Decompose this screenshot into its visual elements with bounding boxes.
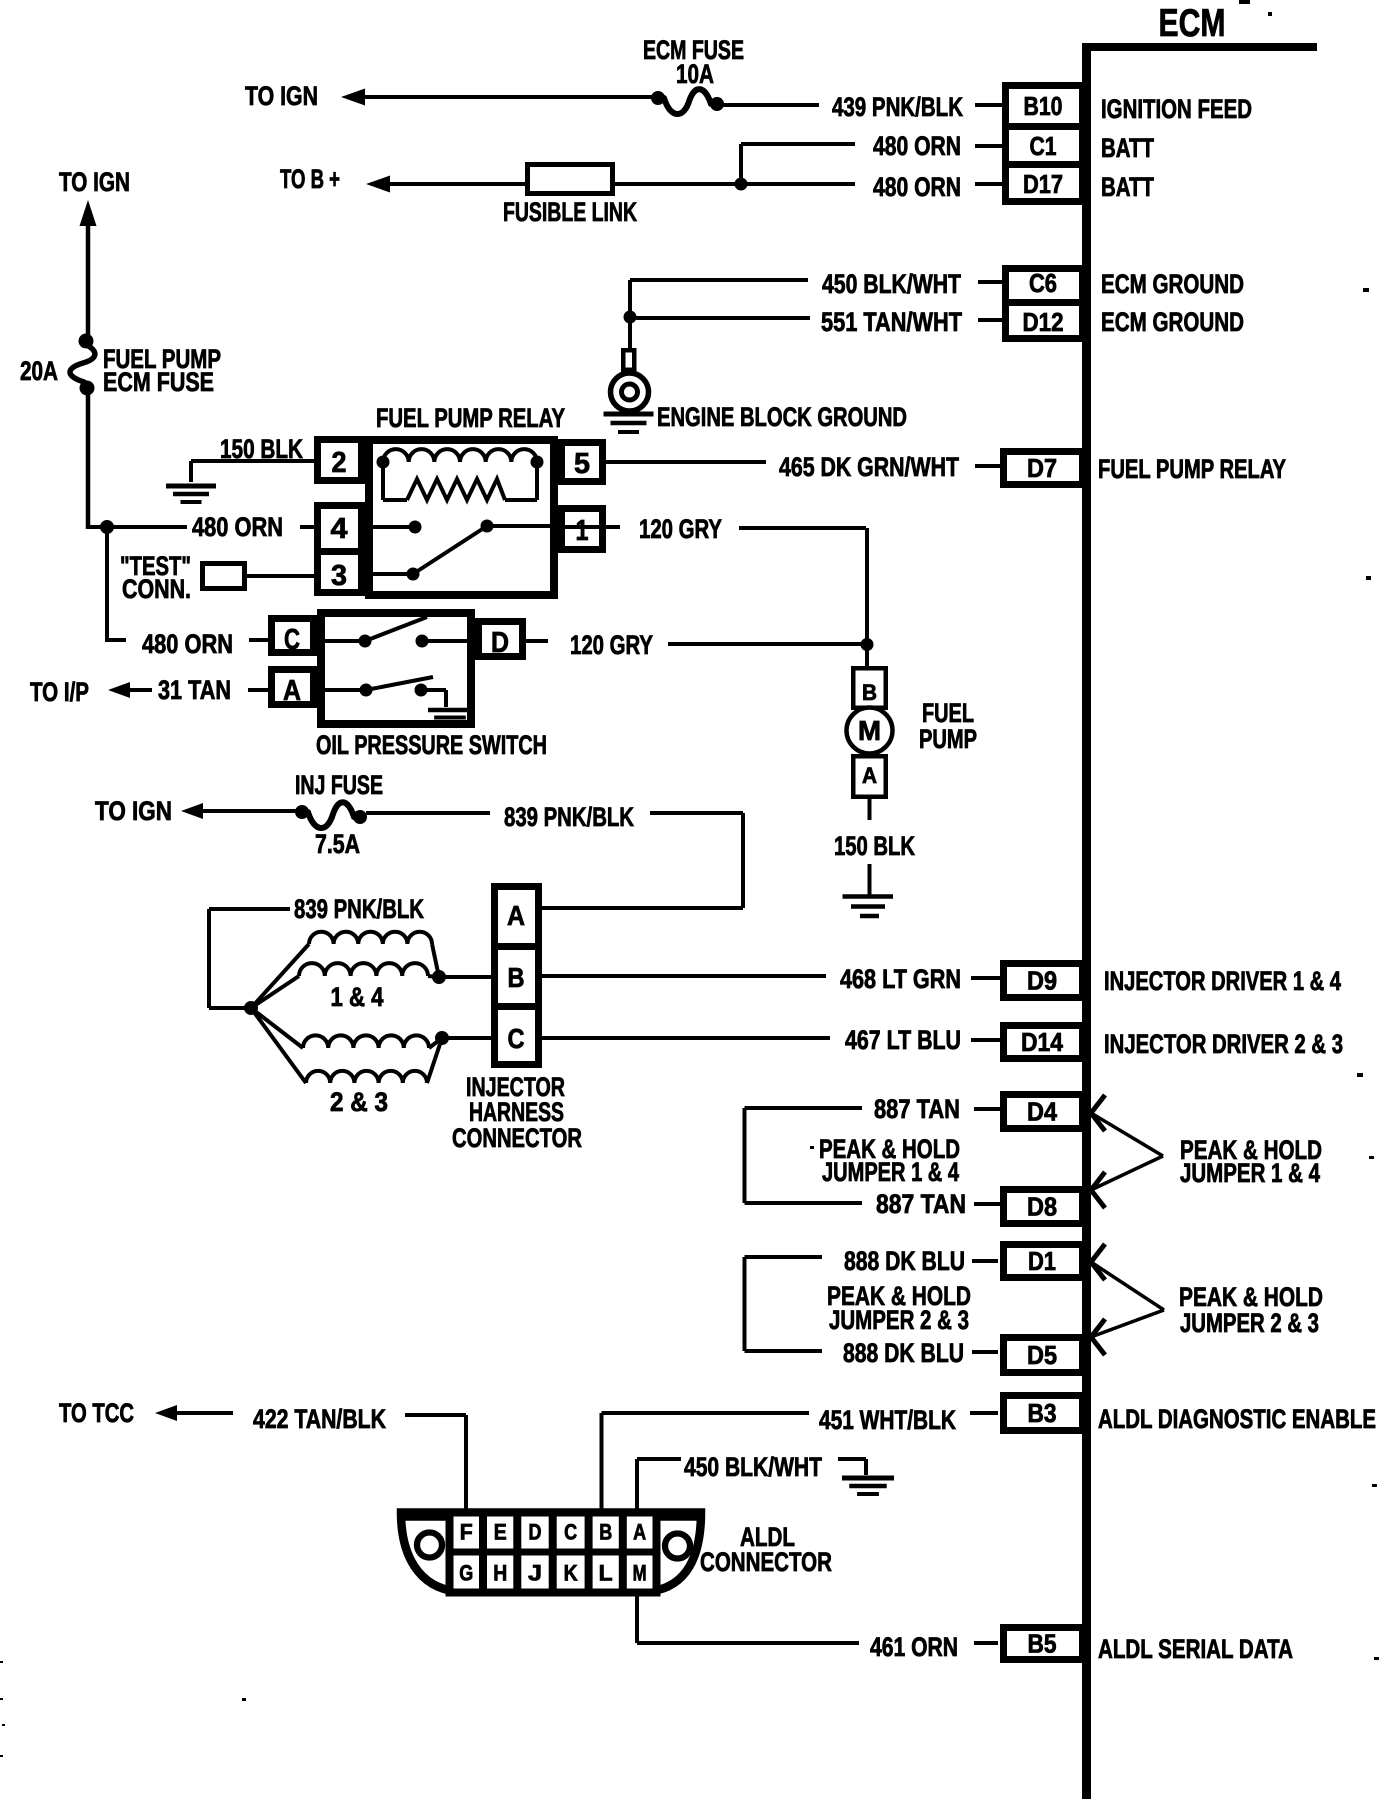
svg-text:B: B [508, 962, 525, 993]
svg-text:2: 2 [332, 447, 347, 479]
svg-text:D5: D5 [1027, 1340, 1057, 1370]
svg-text:CONNECTOR: CONNECTOR [700, 1547, 832, 1577]
svg-text:C1: C1 [1030, 131, 1057, 161]
svg-text:ECM FUSE: ECM FUSE [103, 367, 214, 397]
svg-text:422 TAN/BLK: 422 TAN/BLK [253, 1404, 386, 1434]
svg-text:120 GRY: 120 GRY [570, 630, 653, 660]
svg-text:BATT: BATT [1101, 172, 1154, 202]
svg-text:INJECTOR DRIVER 1 & 4: INJECTOR DRIVER 1 & 4 [1104, 966, 1341, 996]
svg-text:1: 1 [576, 515, 589, 547]
svg-text:461 ORN: 461 ORN [870, 1632, 958, 1662]
svg-text:A: A [862, 763, 877, 788]
svg-text:M: M [858, 715, 881, 746]
svg-text:A: A [507, 900, 525, 931]
svg-text:F: F [460, 1520, 473, 1545]
svg-text:10A: 10A [676, 59, 714, 89]
svg-text:480 ORN: 480 ORN [192, 512, 283, 542]
svg-text:887 TAN: 887 TAN [874, 1094, 960, 1124]
svg-text:INJ FUSE: INJ FUSE [295, 770, 383, 800]
svg-text:M: M [633, 1561, 647, 1586]
svg-text:120 GRY: 120 GRY [639, 514, 722, 544]
svg-text:B5: B5 [1028, 1629, 1057, 1659]
svg-text:D7: D7 [1027, 453, 1057, 483]
svg-text:C6: C6 [1029, 268, 1057, 298]
svg-text:ECM: ECM [1159, 2, 1226, 45]
svg-text:JUMPER 1 & 4: JUMPER 1 & 4 [1180, 1158, 1320, 1188]
svg-text:839 PNK/BLK: 839 PNK/BLK [504, 802, 634, 832]
svg-text:4: 4 [331, 513, 348, 545]
svg-text:D14: D14 [1021, 1027, 1063, 1057]
svg-text:C: C [508, 1023, 525, 1054]
svg-text:2 & 3: 2 & 3 [330, 1087, 388, 1117]
svg-text:B: B [862, 680, 877, 705]
svg-text:7.5A: 7.5A [315, 829, 360, 859]
svg-text:BATT: BATT [1101, 133, 1154, 163]
svg-text:D: D [491, 627, 509, 659]
svg-text:OIL PRESSURE SWITCH: OIL PRESSURE SWITCH [316, 730, 547, 760]
svg-text:TO B +: TO B + [280, 164, 340, 194]
svg-text:E: E [494, 1520, 507, 1545]
svg-text:D8: D8 [1027, 1192, 1057, 1222]
svg-text:465 DK GRN/WHT: 465 DK GRN/WHT [779, 452, 959, 482]
svg-text:FUSIBLE LINK: FUSIBLE LINK [503, 197, 637, 227]
svg-text:H: H [493, 1561, 507, 1586]
svg-text:G: G [459, 1561, 473, 1586]
svg-text:TO IGN: TO IGN [245, 81, 318, 111]
svg-text:B3: B3 [1028, 1398, 1057, 1428]
svg-text:480 ORN: 480 ORN [873, 131, 961, 161]
svg-text:839 PNK/BLK: 839 PNK/BLK [294, 894, 424, 924]
svg-text:TO TCC: TO TCC [59, 1398, 134, 1428]
svg-text:3: 3 [331, 560, 347, 592]
svg-text:ECM GROUND: ECM GROUND [1101, 269, 1244, 299]
svg-text:150 BLK: 150 BLK [834, 831, 915, 861]
svg-text:D1: D1 [1028, 1246, 1056, 1276]
svg-text:480 ORN: 480 ORN [873, 172, 961, 202]
svg-text:5: 5 [574, 448, 590, 480]
svg-text:467 LT BLU: 467 LT BLU [845, 1025, 961, 1055]
svg-text:B: B [599, 1520, 612, 1545]
svg-text:TO IGN: TO IGN [59, 167, 130, 197]
svg-text:FUEL PUMP RELAY: FUEL PUMP RELAY [1098, 454, 1286, 484]
svg-text:A: A [283, 675, 301, 707]
svg-text:A: A [633, 1520, 646, 1545]
svg-text:C: C [284, 624, 300, 656]
svg-text:TO I/P: TO I/P [30, 677, 89, 707]
svg-text:D4: D4 [1027, 1097, 1057, 1127]
svg-text:INJECTOR DRIVER 2 & 3: INJECTOR DRIVER 2 & 3 [1104, 1029, 1343, 1059]
svg-text:ENGINE BLOCK GROUND: ENGINE BLOCK GROUND [657, 402, 907, 432]
svg-text:888 DK BLU: 888 DK BLU [843, 1338, 964, 1368]
svg-text:D17: D17 [1023, 169, 1063, 199]
svg-text:1 & 4: 1 & 4 [331, 982, 384, 1012]
svg-text:CONN.: CONN. [122, 574, 191, 604]
svg-text:887 TAN: 887 TAN [876, 1189, 966, 1219]
svg-text:CONNECTOR: CONNECTOR [452, 1123, 582, 1153]
svg-text:450 BLK/WHT: 450 BLK/WHT [822, 269, 961, 299]
svg-text:ECM GROUND: ECM GROUND [1101, 307, 1244, 337]
svg-text:B10: B10 [1024, 91, 1063, 121]
svg-text:468 LT GRN: 468 LT GRN [840, 964, 961, 994]
svg-text:PUMP: PUMP [919, 724, 977, 754]
svg-text:551 TAN/WHT: 551 TAN/WHT [821, 307, 962, 337]
svg-text:K: K [564, 1561, 578, 1586]
svg-text:20A: 20A [20, 356, 58, 386]
svg-text:D12: D12 [1023, 307, 1064, 337]
svg-text:FUEL PUMP RELAY: FUEL PUMP RELAY [376, 403, 565, 433]
svg-text:D: D [529, 1520, 542, 1545]
svg-text:JUMPER 2 & 3: JUMPER 2 & 3 [1180, 1308, 1319, 1338]
svg-text:439 PNK/BLK: 439 PNK/BLK [832, 92, 963, 122]
svg-text:D9: D9 [1027, 966, 1057, 996]
svg-text:JUMPER 1 & 4: JUMPER 1 & 4 [822, 1157, 959, 1187]
svg-text:JUMPER 2 & 3: JUMPER 2 & 3 [829, 1305, 969, 1335]
svg-text:888 DK BLU: 888 DK BLU [844, 1246, 965, 1276]
svg-text:31 TAN: 31 TAN [158, 675, 231, 705]
svg-text:ALDL SERIAL DATA: ALDL SERIAL DATA [1098, 1634, 1293, 1664]
svg-text:480 ORN: 480 ORN [142, 629, 233, 659]
svg-text:C: C [564, 1520, 577, 1545]
svg-text:451 WHT/BLK: 451 WHT/BLK [819, 1405, 956, 1435]
svg-text:L: L [599, 1561, 613, 1586]
svg-text:IGNITION FEED: IGNITION FEED [1101, 94, 1252, 124]
svg-text:450 BLK/WHT: 450 BLK/WHT [684, 1452, 822, 1482]
svg-text:ALDL DIAGNOSTIC ENABLE: ALDL DIAGNOSTIC ENABLE [1098, 1404, 1376, 1434]
svg-text:J: J [528, 1561, 542, 1586]
svg-text:TO IGN: TO IGN [95, 796, 172, 826]
